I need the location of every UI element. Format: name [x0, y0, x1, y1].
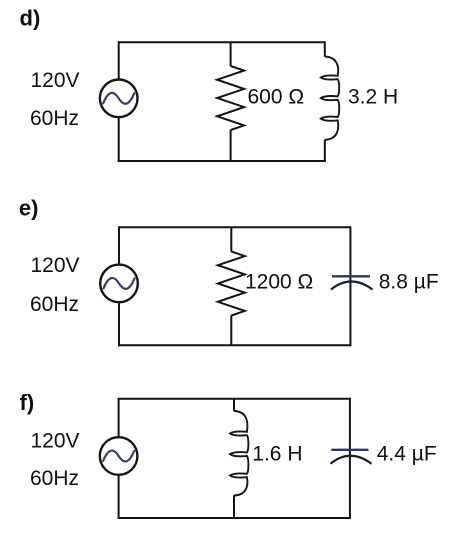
wire: e middle branch lower stub	[230, 315, 232, 345]
svg-text:60Hz: 60Hz	[30, 293, 79, 316]
wire: d left rail lower segment	[118, 118, 120, 163]
svg-text:60Hz: 60Hz	[30, 107, 79, 130]
wire: f right rail (through capacitor)	[349, 398, 351, 519]
resistor R2 1200 ohm (circuit e)	[218, 252, 245, 316]
wire: f middle branch lower stub	[233, 495, 235, 518]
svg-text:8.8 µF: 8.8 µF	[379, 271, 439, 294]
wire: f left rail upper segment	[118, 398, 120, 437]
wire: d right rail lower stub	[324, 140, 326, 162]
wire: f bottom rail	[118, 517, 351, 519]
wire: e middle branch upper stub	[230, 227, 232, 251]
AC source V3 120V 60Hz (circuit f)	[100, 437, 138, 475]
svg-text:120V: 120V	[31, 254, 80, 277]
wire: d bottom rail	[118, 160, 326, 162]
wire: f left rail lower segment	[118, 475, 120, 519]
wire: d middle branch upper stub	[230, 42, 232, 66]
svg-text:1.6 H: 1.6 H	[252, 443, 302, 466]
inductor L2 1.6 H (circuit f)	[230, 411, 248, 496]
wire: d right rail upper stub	[324, 41, 326, 57]
wire: d left rail upper segment	[118, 41, 120, 79]
svg-text:e): e)	[19, 196, 39, 221]
wire: e left rail upper segment	[118, 226, 120, 264]
svg-text:4.4 µF: 4.4 µF	[377, 443, 437, 466]
wire: e bottom rail	[118, 344, 351, 346]
capacitor C1 8.8 uF (circuit e)	[331, 276, 373, 289]
AC source V2 120V 60Hz (circuit e)	[100, 265, 138, 303]
resistor R1 600 ohm (circuit d)	[217, 66, 244, 130]
svg-text:d): d)	[20, 6, 41, 31]
svg-text:60Hz: 60Hz	[30, 467, 79, 490]
wire: f middle branch upper stub	[233, 399, 235, 411]
wire: e right rail (through capacitor)	[349, 226, 351, 346]
svg-text:120V: 120V	[31, 430, 80, 453]
capacitor C2 4.4 uF (circuit f)	[331, 450, 372, 464]
wire: d middle branch lower stub	[230, 130, 232, 161]
svg-text:3.2 H: 3.2 H	[348, 86, 398, 109]
wire: e left rail lower segment	[118, 303, 120, 347]
svg-text:f): f)	[20, 390, 35, 415]
svg-text:1200 Ω: 1200 Ω	[245, 271, 313, 294]
AC source V1 120V 60Hz (circuit d)	[100, 80, 138, 118]
wire: f top rail	[119, 398, 350, 400]
svg-text:600 Ω: 600 Ω	[248, 86, 305, 109]
wire: d top rail	[119, 41, 325, 43]
svg-text:120V: 120V	[31, 69, 80, 92]
inductor L1 3.2 H (circuit d)	[321, 57, 339, 140]
wire: e top rail	[119, 226, 350, 228]
